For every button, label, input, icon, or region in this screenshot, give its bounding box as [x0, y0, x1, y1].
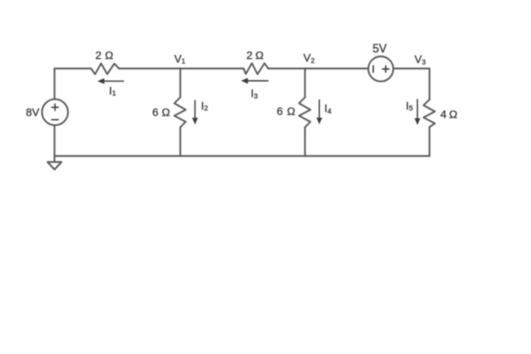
voltage source VS2 5V circle — [368, 56, 393, 81]
VS2 plus sign — [383, 68, 390, 70]
resistor R5 4ohm zigzag — [424, 100, 435, 128]
wire left vertical below 8V source — [54, 125, 56, 161]
voltage source VS1 8V circle — [42, 99, 68, 125]
wire left vertical above 8V source — [54, 69, 56, 100]
wire 5V source to corner V3 — [393, 68, 429, 70]
svg-text:4: 4 — [440, 109, 446, 121]
current arrow I2 — [194, 100, 196, 119]
svg-text:Ω: Ω — [449, 109, 457, 121]
ground symbol — [48, 162, 62, 170]
resistor R2 6ohm zigzag — [174, 97, 185, 127]
svg-text:Ω: Ω — [105, 50, 113, 62]
svg-text:V1: V1 — [174, 53, 185, 65]
resistor R4 6ohm zigzag — [299, 97, 310, 127]
wire right vertical bottom — [429, 127, 431, 156]
VS1 minus sign — [52, 119, 58, 121]
svg-text:5V: 5V — [373, 44, 387, 56]
svg-text:2: 2 — [246, 50, 252, 62]
svg-text:Ω: Ω — [287, 106, 295, 118]
VS2 minus bar — [372, 66, 374, 73]
current arrow I5 — [416, 99, 418, 120]
wire node V2 vertical top — [304, 69, 306, 98]
wire bottom horizontal — [55, 155, 430, 157]
svg-text:I1: I1 — [109, 85, 116, 97]
wire node V1 vertical bottom — [179, 127, 181, 156]
VS1 plus sign — [52, 106, 58, 108]
svg-text:I4: I4 — [324, 103, 331, 115]
svg-text:6: 6 — [152, 107, 158, 119]
resistor R1 2ohm zigzag — [91, 63, 119, 74]
resistor R3 2ohm zigzag — [244, 63, 269, 74]
svg-text:I3: I3 — [251, 88, 258, 100]
svg-text:V2: V2 — [303, 53, 314, 65]
svg-text:Ω: Ω — [255, 50, 263, 62]
svg-text:Ω: Ω — [162, 107, 170, 119]
wire node V2 vertical bottom — [304, 127, 306, 156]
wire node V1 vertical top — [179, 69, 181, 98]
svg-text:I5: I5 — [406, 100, 413, 112]
current arrow I1 — [103, 80, 124, 82]
svg-text:V3: V3 — [415, 54, 426, 66]
wire right vertical top — [429, 69, 431, 100]
svg-text:2: 2 — [95, 50, 101, 62]
svg-text:8V: 8V — [26, 107, 40, 119]
current arrow I3 — [247, 80, 269, 82]
svg-text:I2: I2 — [201, 100, 208, 112]
current arrow I4 — [318, 100, 320, 119]
wire top-left horizontal — [55, 68, 92, 70]
wire R1 to node V1 — [119, 68, 244, 70]
wire R3 to 5V source — [268, 68, 368, 70]
svg-text:6: 6 — [277, 106, 283, 118]
